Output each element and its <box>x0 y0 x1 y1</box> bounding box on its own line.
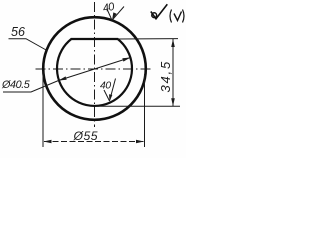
svg-text:56: 56 <box>11 25 25 39</box>
outer circle (Ø55 contour) <box>43 17 146 120</box>
Ø40.5 diameter line with leader <box>3 58 131 93</box>
dimension line Ø55 (dashed scan look) <box>44 141 144 143</box>
leader for top 40 (bent V) <box>107 7 124 21</box>
dimension line 34.5 <box>172 39 174 106</box>
leader for small 40 (bent V) <box>104 79 116 102</box>
parenthesized check (v) <box>170 10 184 23</box>
svg-text:34,5: 34,5 <box>158 60 173 93</box>
extension line right (Ø55) <box>144 74 146 147</box>
arrowhead top 40 <box>110 12 116 21</box>
svg-text:Ø40.5: Ø40.5 <box>1 79 31 91</box>
arrowhead Ø55 left <box>44 140 52 144</box>
arrowhead 34.5 down <box>171 98 175 106</box>
arrowhead Ø55 right <box>136 140 144 144</box>
leader for 56 <box>9 39 48 51</box>
extension line top (34.5) <box>118 38 178 40</box>
surface finish check symbol <box>151 4 168 19</box>
arrowhead Ø40.5 upper-right <box>122 56 131 62</box>
vertical centerline <box>94 2 96 127</box>
arrowhead 34.5 up <box>171 39 175 47</box>
horizontal centerline <box>36 68 152 70</box>
extension line left (Ø55) <box>42 71 44 147</box>
arrowhead small 40 <box>108 94 113 101</box>
svg-text:40: 40 <box>100 81 111 92</box>
svg-text:Ø55: Ø55 <box>73 129 99 143</box>
extension line bottom (34.5) <box>95 105 180 107</box>
arrowhead Ø40.5 lower-left <box>58 76 67 82</box>
inner bore contour (Ø40.5 with flat top) <box>57 39 132 106</box>
